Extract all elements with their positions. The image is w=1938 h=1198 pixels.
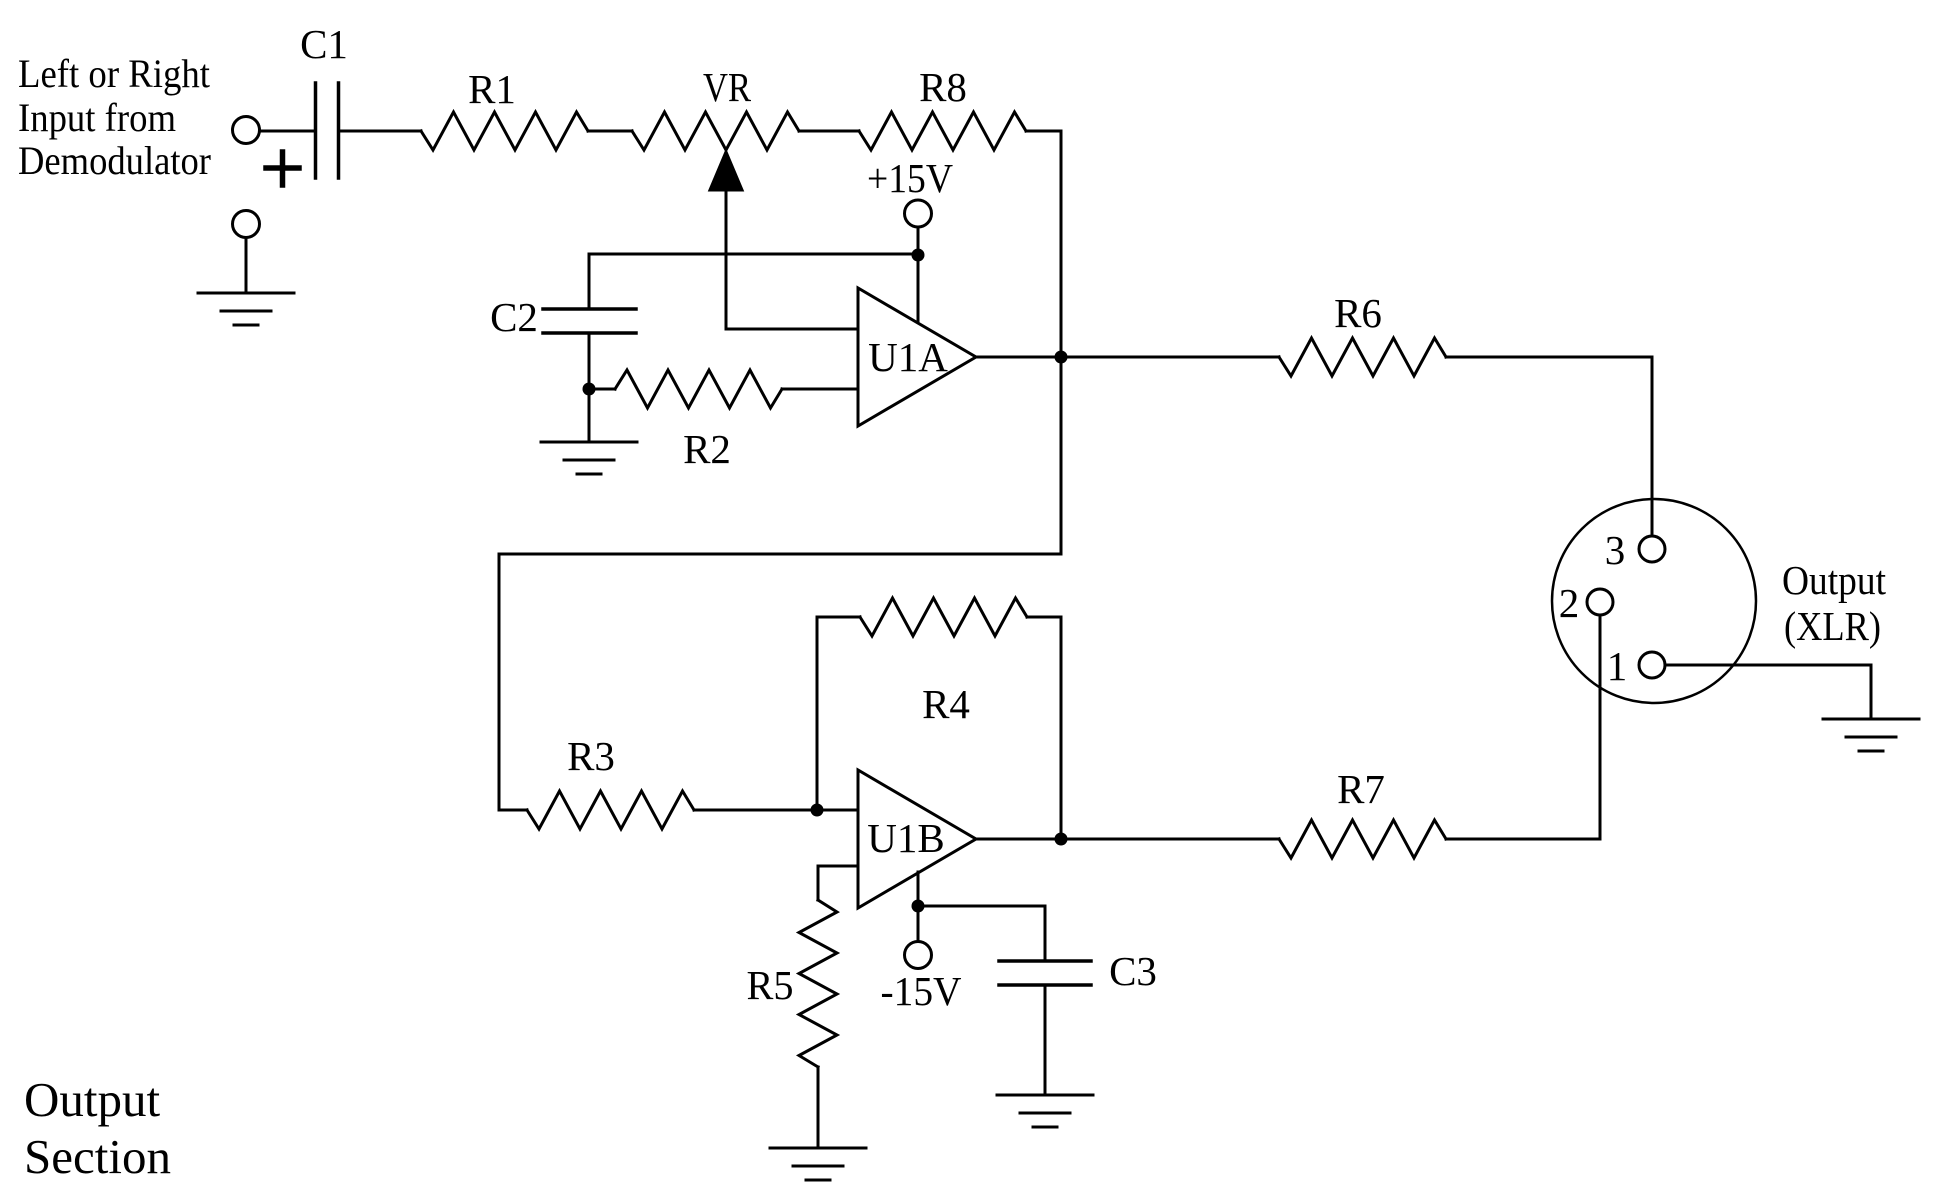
pin 3 xyxy=(1605,527,1665,573)
wire C1 to R1 xyxy=(340,130,421,133)
wire R4 right leg xyxy=(1027,617,1061,839)
wire +15V rail to C2 xyxy=(589,253,918,256)
svg-text:R7: R7 xyxy=(1337,766,1385,812)
wire feedback vertical xyxy=(1060,131,1063,554)
wire R6 to XLR pin 3 xyxy=(1446,357,1652,536)
wire corner to R3 xyxy=(499,809,527,812)
svg-text:R8: R8 xyxy=(919,64,967,110)
wire VR wiper to U1A input xyxy=(726,190,858,329)
svg-text:U1A: U1A xyxy=(868,334,948,380)
resistor R7 xyxy=(1279,766,1446,858)
ground XLR xyxy=(1823,719,1919,751)
ground R5 xyxy=(770,1148,866,1180)
ground input xyxy=(198,293,294,325)
node U1A output junction xyxy=(1055,351,1068,364)
wire U1B output to R7 xyxy=(1061,838,1279,841)
svg-text:2: 2 xyxy=(1559,580,1580,626)
wire down to R3 xyxy=(498,554,501,810)
svg-text:VR: VR xyxy=(703,64,752,110)
wire input to C1 xyxy=(260,130,315,133)
resistor R2 xyxy=(615,370,782,472)
wire junction to ground xyxy=(588,389,591,442)
ground C2 xyxy=(541,442,637,474)
svg-text:R2: R2 xyxy=(683,426,731,472)
svg-text:Section: Section xyxy=(24,1129,171,1184)
potentiometer VR xyxy=(632,64,799,190)
op-amp U1B xyxy=(858,770,976,908)
wire U1A output xyxy=(976,356,1061,359)
wire junction to R2 xyxy=(589,388,615,391)
wire +15V into U1A xyxy=(917,255,920,324)
capacitor C1 xyxy=(266,21,348,185)
svg-text:Input from: Input from xyxy=(18,95,176,140)
wire C2 bottom xyxy=(588,333,591,389)
wire R2 to U1A input xyxy=(782,388,858,391)
wire C2 top xyxy=(588,254,591,309)
+15V supply terminal xyxy=(867,155,953,227)
svg-text:R3: R3 xyxy=(567,733,615,779)
svg-text:+15V: +15V xyxy=(867,155,953,201)
resistor R8 xyxy=(859,64,1026,150)
svg-text:R6: R6 xyxy=(1334,290,1382,336)
svg-text:Left or Right: Left or Right xyxy=(18,51,210,96)
pin 2 xyxy=(1559,580,1613,626)
svg-text:3: 3 xyxy=(1605,527,1626,573)
wire ground terminal xyxy=(245,238,248,293)
input description text xyxy=(18,51,211,183)
svg-text:C3: C3 xyxy=(1109,948,1157,994)
svg-text:Output: Output xyxy=(1782,557,1887,603)
node U1B inverting input xyxy=(811,804,824,817)
wire +15V to node xyxy=(917,227,920,255)
capacitor C2 xyxy=(490,294,636,340)
resistor R6 xyxy=(1279,290,1446,376)
wire R3 to U1B input xyxy=(694,809,858,812)
node U1B output junction xyxy=(1055,833,1068,846)
wire VR to R8 xyxy=(799,130,859,133)
svg-text:R5: R5 xyxy=(747,962,794,1008)
ground C3 xyxy=(997,1095,1093,1127)
resistor R1 xyxy=(421,66,588,150)
wire R8 to feedback node xyxy=(1026,130,1061,133)
svg-text:(XLR): (XLR) xyxy=(1784,603,1881,649)
ground terminal xyxy=(233,211,260,238)
svg-text:Demodulator: Demodulator xyxy=(18,138,211,183)
wire U1A output to R6 xyxy=(1061,356,1279,359)
node +15V junction xyxy=(912,249,925,262)
svg-text:R1: R1 xyxy=(468,66,516,112)
node -15V junction xyxy=(912,900,925,913)
resistor R3 xyxy=(527,733,694,829)
wire R7 to XLR pin 2 xyxy=(1446,616,1600,839)
input terminal xyxy=(233,117,260,144)
wire feedback horizontal xyxy=(499,553,1061,556)
wire -15V node to C3 xyxy=(918,905,1045,908)
wire R5 to ground xyxy=(817,1067,820,1148)
wire U1B non-inverting input to R5 xyxy=(818,866,858,900)
wire pin 1 to ground xyxy=(1665,665,1871,719)
wire U1B output xyxy=(976,838,1061,841)
svg-text:R4: R4 xyxy=(922,681,970,727)
capacitor C3 xyxy=(999,948,1157,994)
resistor R4 xyxy=(860,598,1027,727)
svg-text:Output: Output xyxy=(24,1072,161,1127)
-15V supply terminal xyxy=(881,942,962,1015)
pin 1 xyxy=(1607,643,1665,689)
wire R4 left leg xyxy=(817,617,860,810)
wire C3 top xyxy=(1044,906,1047,961)
wire U1B power pin xyxy=(917,872,920,941)
wire R1 to VR xyxy=(588,130,632,133)
label output XLR xyxy=(1782,557,1887,649)
op-amp U1A xyxy=(858,288,976,426)
wire C3 bottom xyxy=(1044,985,1047,1095)
svg-text:-15V: -15V xyxy=(881,968,962,1014)
node C2/R2 junction xyxy=(583,383,596,396)
svg-text:U1B: U1B xyxy=(867,815,944,861)
connector XLR body xyxy=(1552,499,1756,703)
svg-text:1: 1 xyxy=(1607,643,1628,689)
svg-text:C2: C2 xyxy=(490,294,538,340)
resistor R5 xyxy=(747,900,838,1067)
title Output Section xyxy=(24,1072,171,1184)
svg-text:C1: C1 xyxy=(300,21,348,67)
